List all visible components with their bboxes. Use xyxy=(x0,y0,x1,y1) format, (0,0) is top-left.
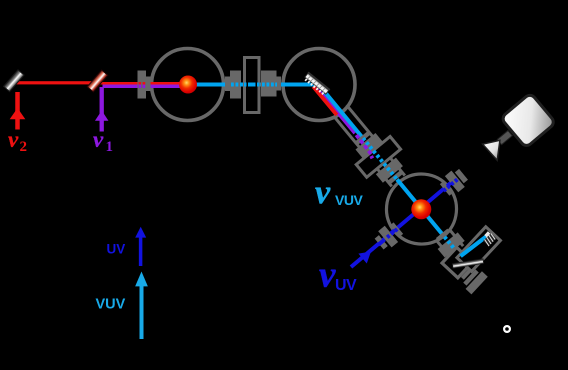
striped element at tube end xyxy=(481,231,497,247)
svg-text:UV: UV xyxy=(335,277,357,294)
legend blue UV arrow xyxy=(135,227,146,266)
red beam into chamber 1 xyxy=(99,82,186,85)
vacuum tube wall upper xyxy=(347,105,405,176)
blue dashes over NE and SW stacks xyxy=(377,178,459,246)
cyan dashes through flange before chamber 2 xyxy=(262,83,277,87)
svg-text:VUV: VUV xyxy=(335,192,363,208)
mirror M2 (top-left silver mirror) xyxy=(4,70,24,92)
cyan dashes over stack A / valve 2 / stack B xyxy=(361,137,398,180)
beam through valve 1 xyxy=(244,83,260,87)
small white o marker xyxy=(504,326,510,332)
legend cyan VUV arrow xyxy=(135,272,148,340)
dispersed purple beam from grating xyxy=(316,87,355,134)
detector stem xyxy=(497,130,512,144)
beamline-2 underlay group (tube walls + interaction chamber) xyxy=(313,88,484,274)
folding mirror in mirror box xyxy=(452,259,483,268)
chamber 2 (grating chamber) xyxy=(283,49,355,121)
detector box xyxy=(501,93,556,148)
flange stack SW (UV entry) xyxy=(372,220,405,252)
cyan beam solid through chamber 3 xyxy=(395,178,445,237)
red arrow nu2 xyxy=(10,92,26,130)
gas jet ball chamber 1 xyxy=(179,76,197,94)
svg-text:ν: ν xyxy=(315,174,331,211)
svg-text:ν: ν xyxy=(8,127,19,152)
flange stack B xyxy=(376,158,407,188)
mirror M1 (dichroic combiner) xyxy=(87,70,107,92)
gas ball chamber 3 (interaction region) xyxy=(411,199,431,219)
purple arrow nu1 xyxy=(95,87,109,132)
svg-text:ν: ν xyxy=(93,127,104,152)
beamline-2 overlay group (beam + hardware) xyxy=(274,48,507,297)
tube wall to mirror box lower xyxy=(436,240,450,257)
flange right of chamber 1 xyxy=(225,71,241,99)
gate valve 2 xyxy=(356,137,400,178)
purple beam nu1 into chamber 1 xyxy=(103,85,187,89)
cyan dashes through right flange xyxy=(231,83,242,87)
return tube to detector grating xyxy=(457,227,501,272)
flange stack A xyxy=(351,128,382,158)
gate valve 1 xyxy=(245,58,260,113)
red beam from mirror M2 to mirror M1 xyxy=(15,81,99,84)
svg-text:VUV: VUV xyxy=(96,297,126,313)
grating in chamber 2 xyxy=(303,72,331,97)
cyan beam solid to stack A xyxy=(316,81,365,139)
svg-text:1: 1 xyxy=(106,139,114,155)
cyan return beam xyxy=(461,230,490,260)
svg-text:ν: ν xyxy=(319,255,336,296)
detector cone xyxy=(483,140,500,160)
vacuum tube wall lower xyxy=(333,116,391,187)
flange before chamber 2 xyxy=(261,71,281,97)
flange on mirror box SE port xyxy=(457,263,488,294)
cyan VUV beam chamber1 to grating xyxy=(190,83,317,87)
chamber 1 (VUV generation cell) xyxy=(152,49,224,121)
flange left of chamber 1 xyxy=(138,71,151,99)
flange stack SE (VUV exit) xyxy=(432,225,465,257)
purple beam dashes ending at valve 2 xyxy=(356,135,372,158)
blue UV beam into interaction chamber xyxy=(351,178,457,267)
blue UV beam arrowhead xyxy=(358,247,375,264)
cyan dashes over SE stack xyxy=(443,236,455,249)
cyan beam solid to mirror xyxy=(453,248,467,263)
svg-text:UV: UV xyxy=(107,242,126,257)
mirror box chamber xyxy=(442,247,472,277)
chamber 3 (interaction chamber) xyxy=(372,160,471,259)
dispersed red beam from grating xyxy=(313,87,337,116)
beam dashes through left flange xyxy=(139,82,146,88)
detector arm assembly xyxy=(440,222,512,294)
flange stack NE (UV exit) xyxy=(438,166,470,198)
tube wall to mirror box upper xyxy=(449,230,463,247)
svg-text:2: 2 xyxy=(20,139,28,155)
